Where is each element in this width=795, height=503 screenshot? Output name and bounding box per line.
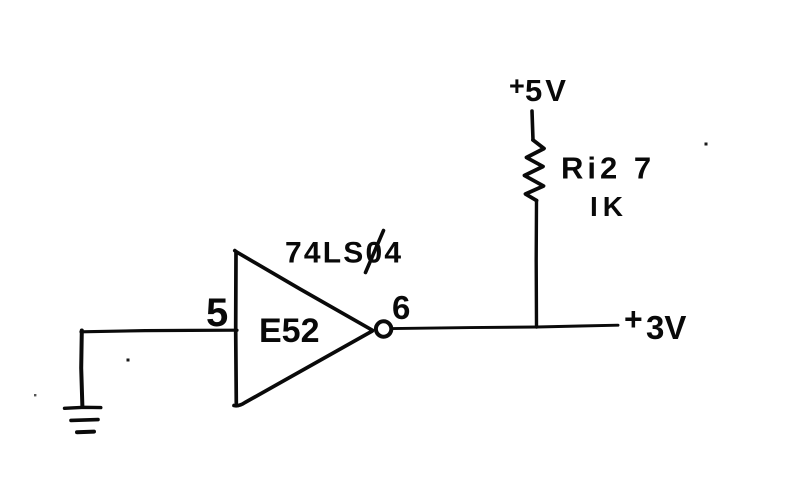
ground xyxy=(65,407,101,432)
svg-text:74LS04: 74LS04 xyxy=(285,237,403,270)
inverter U1 E52 (74LS04 gate) triangle xyxy=(234,251,372,406)
svg-text:+: + xyxy=(624,301,643,337)
svg-text:5V: 5V xyxy=(525,73,569,108)
wire: resistor to output node xyxy=(535,201,539,328)
slash through the zero of 74LS04 xyxy=(366,231,384,273)
wire: +5V to resistor xyxy=(532,111,533,140)
wire: left vertical down to ground xyxy=(81,331,82,408)
svg-text:5: 5 xyxy=(206,291,228,335)
svg-text:+: + xyxy=(509,71,525,101)
svg-text:Ri2 7: Ri2 7 xyxy=(561,151,655,186)
svg-text:6: 6 xyxy=(392,289,410,326)
svg-text:E52: E52 xyxy=(259,312,320,350)
svg-text:3V: 3V xyxy=(646,309,686,346)
resistor R127 zigzag xyxy=(525,140,545,201)
svg-text:IK: IK xyxy=(590,191,628,222)
output bubble xyxy=(376,321,391,336)
wire: output horizontal (bubble to +3V) xyxy=(392,325,618,328)
wire: input horizontal (ground corner to pin 5) xyxy=(81,330,237,332)
